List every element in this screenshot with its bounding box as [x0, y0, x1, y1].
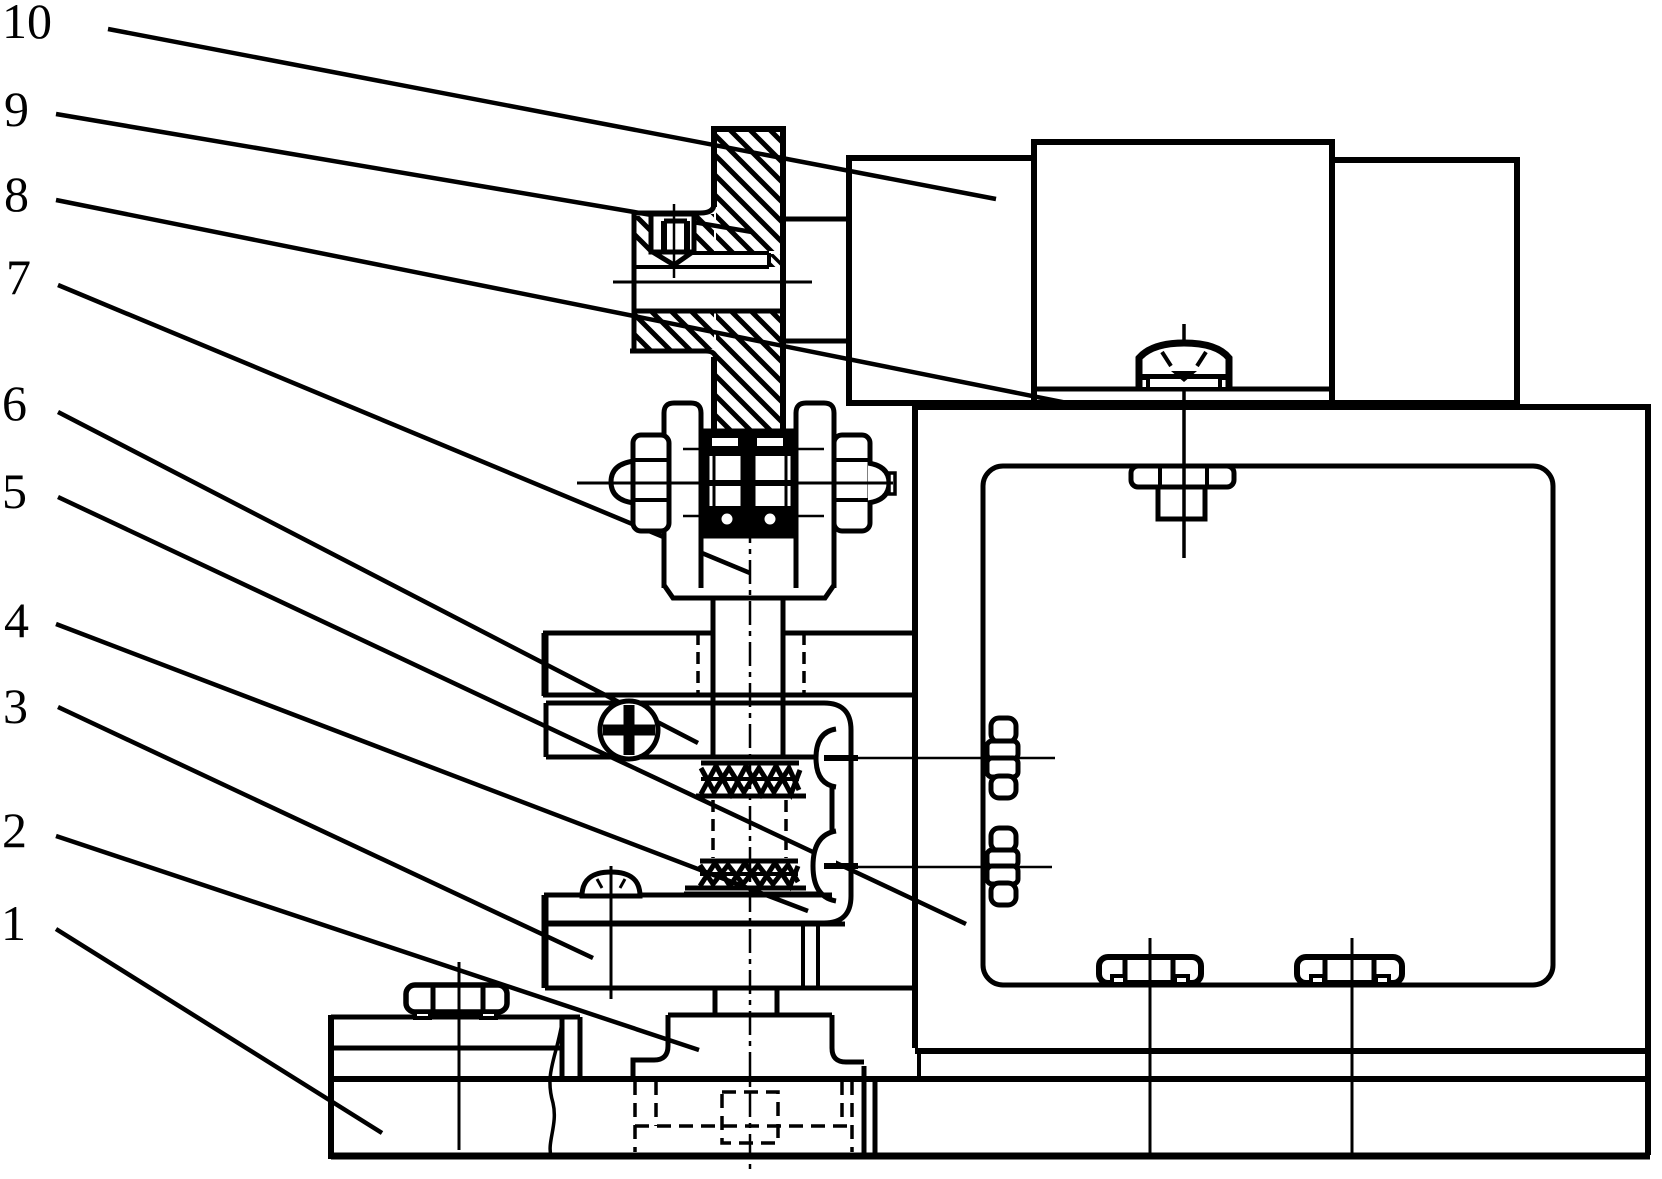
base plate (1)	[331, 407, 1650, 1159]
motor right box	[1332, 160, 1517, 403]
top bolt centerline	[1182, 324, 1186, 558]
side bolt lower	[987, 828, 1018, 905]
svg-text:5: 5	[2, 463, 27, 519]
motor shaft lines	[783, 217, 849, 222]
leader 7	[58, 285, 750, 573]
motor left box	[849, 158, 1034, 403]
leader 9	[56, 114, 752, 232]
svg-text:9: 9	[4, 81, 29, 137]
svg-text:1: 1	[1, 895, 26, 951]
leader 10	[108, 29, 996, 199]
machine body (5)	[915, 404, 1651, 1079]
leader 6	[58, 412, 698, 743]
C-bracket (6)	[545, 703, 851, 923]
leader 1	[56, 929, 382, 1133]
svg-text:10: 10	[2, 0, 52, 49]
connecting rod below clevis	[713, 598, 783, 757]
svg-text:4: 4	[4, 592, 29, 648]
svg-text:3: 3	[3, 678, 28, 734]
coupling screw bar (9)	[714, 126, 783, 433]
clevis pin block	[683, 432, 824, 535]
pan screw upper	[816, 729, 858, 787]
leader 5	[58, 497, 966, 924]
clevis bolt left nut	[611, 435, 669, 531]
clevis bolt axis	[577, 482, 893, 485]
collar bore centerline	[613, 281, 812, 284]
upper slide plate	[543, 633, 913, 696]
dashed rod between springs	[711, 800, 715, 858]
pedestal bolt	[406, 985, 507, 1018]
T-slot hidden lines	[635, 1081, 852, 1152]
bottom nut centerlines	[1149, 938, 1152, 1155]
shaft collar (8)	[630, 204, 783, 360]
motor mount screw dome	[1139, 343, 1229, 389]
bottom nut left	[1099, 957, 1201, 984]
pillar under rod (2)	[633, 988, 864, 1081]
svg-text:8: 8	[4, 166, 29, 222]
leader 2	[56, 836, 699, 1050]
phillips screw head	[600, 701, 658, 759]
leader 3	[58, 707, 593, 958]
dome screw on lower plate	[582, 872, 640, 896]
side bolt upper	[987, 718, 1018, 798]
body inner rounded pocket	[983, 466, 1553, 985]
lower screw axis	[813, 866, 1052, 869]
clevis (7)	[664, 403, 834, 588]
upper spring	[696, 763, 806, 796]
leader 8	[56, 200, 1067, 403]
top bolt inside pocket	[1131, 466, 1234, 519]
left pedestal	[331, 1017, 580, 1156]
bottom nut right	[1297, 957, 1402, 984]
upper screw axis	[843, 757, 1055, 760]
svg-text:6: 6	[2, 375, 27, 431]
svg-text:7: 7	[6, 249, 31, 305]
leader 4	[56, 624, 808, 911]
pan screw lower	[813, 831, 858, 901]
lower spring	[685, 861, 806, 888]
clevis bolt right nut	[834, 435, 895, 531]
collar set screw	[651, 204, 694, 278]
main vertical centerline	[749, 437, 752, 1175]
motor middle box (10)	[1034, 142, 1332, 403]
svg-text:2: 2	[2, 802, 27, 858]
lower jaw plate	[544, 895, 914, 988]
